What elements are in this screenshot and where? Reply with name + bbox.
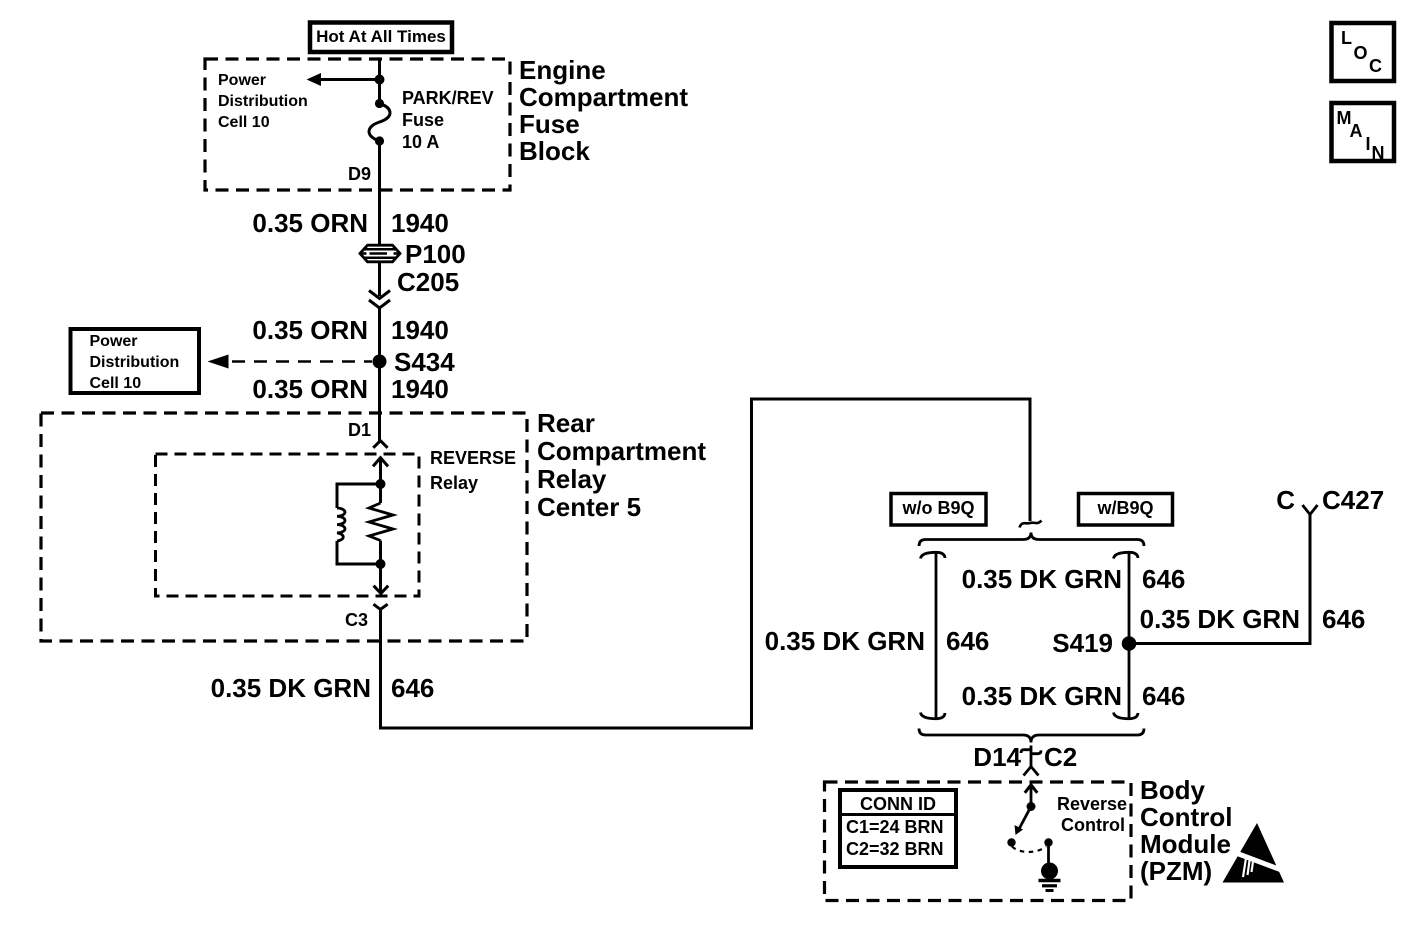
relay resistor branch wire bottom xyxy=(379,541,382,565)
splice label S419 xyxy=(1052,630,1113,657)
label C2=32 BRN xyxy=(846,840,944,859)
connector C427 chevron xyxy=(1303,505,1318,515)
node junction dot top xyxy=(375,75,385,85)
wire label 0.35 ORN 1940 (2) xyxy=(252,317,368,344)
relay top node dot xyxy=(376,479,386,489)
wire from C205 to splice S434 and on to D1 xyxy=(378,308,381,441)
bottom grouping brace xyxy=(919,729,1144,743)
wire to switch pivot xyxy=(1030,786,1033,807)
fuse PARK/REV bottom terminal dot xyxy=(375,136,384,145)
fuse PARK/REV top terminal dot xyxy=(375,99,384,108)
Body Control Module dashed box xyxy=(825,782,1132,901)
wire label 0.35 DK GRN 646 (w/o B9Q) xyxy=(765,628,925,655)
arrowhead to Power Distribution xyxy=(307,73,322,86)
wire label 0.35 DK GRN 646 (C3) xyxy=(211,675,371,702)
wire arrow to coil node xyxy=(379,458,382,484)
wire feed to Power Distribution xyxy=(320,78,380,81)
label Reverse Control xyxy=(1057,795,1127,814)
LOC letters xyxy=(1341,29,1352,48)
label Power Distribution Cell 10 (boxed) xyxy=(90,331,180,394)
label C1=24 BRN xyxy=(846,818,944,837)
dashed reference arrow to Power Distribution Cell 10 xyxy=(232,360,372,363)
MAIN legend box xyxy=(1332,103,1395,161)
wire from fuse through pin D9 to connector C205 xyxy=(378,141,381,246)
label Engine Compartment Fuse Block xyxy=(519,57,688,165)
Power Distribution Cell 10 box xyxy=(71,329,200,393)
pin label D14 xyxy=(973,744,1021,771)
ground symbol xyxy=(1041,863,1058,880)
w/B9Q option box xyxy=(1079,494,1173,526)
wire to ground xyxy=(1047,843,1050,864)
fuse PARK/REV element xyxy=(369,104,390,142)
pin C3 chevron xyxy=(373,604,387,609)
top grouping brace xyxy=(919,533,1144,547)
switch pivot dot xyxy=(1027,802,1036,811)
arrow out of REVERSE relay xyxy=(374,586,389,594)
MAIN letters xyxy=(1337,109,1352,128)
pin label C2 xyxy=(1044,744,1077,771)
splice label S434 xyxy=(394,349,455,376)
LOC legend box xyxy=(1332,23,1395,81)
relay resistor zigzag xyxy=(369,503,393,541)
switch left contact dot xyxy=(1007,838,1015,846)
connector P100 grommet xyxy=(360,245,400,262)
REVERSE Relay inner dashed box xyxy=(156,454,420,596)
splice S434 node dot xyxy=(373,355,387,369)
label REVERSE Relay xyxy=(430,449,516,468)
pin label C xyxy=(1276,487,1295,514)
label Body Control Module (PZM) xyxy=(1140,777,1232,885)
option label w/o B9Q xyxy=(891,499,986,518)
Hot At All Times box xyxy=(310,23,452,53)
label Power Distribution Cell 10 (fuse block) xyxy=(218,70,308,133)
label Hot At All Times xyxy=(310,27,452,46)
ESD sensitive symbol xyxy=(1223,823,1293,883)
pin chevron into BCM xyxy=(1024,767,1039,776)
wire label 0.35 DK GRN 646 (bottom branch) xyxy=(962,683,1122,710)
option label w/B9Q xyxy=(1079,499,1173,518)
connector C205 chevrons xyxy=(369,291,390,299)
relay resistor branch wire top xyxy=(379,484,382,503)
Rear Compartment Relay Center 5 dashed box xyxy=(41,413,527,641)
CONN ID header line xyxy=(840,813,956,816)
Engine Compartment Fuse Block dashed box xyxy=(205,59,510,190)
connector label C205 xyxy=(397,269,459,296)
relay coil branch wire xyxy=(337,484,381,564)
label CONN ID xyxy=(840,795,956,814)
switch lever xyxy=(1019,807,1031,830)
switch lever arrowhead xyxy=(1015,825,1024,835)
CONN ID table box xyxy=(840,790,956,867)
arrow into REVERSE relay xyxy=(373,458,388,467)
w/o B9Q option box xyxy=(891,494,986,526)
wire label 0.35 DK GRN 646 (to C427) xyxy=(1140,606,1300,633)
wire from C3 down, right, up and over to BCM branch xyxy=(381,399,1031,728)
w/B9Q wire with bracket ends xyxy=(1114,552,1139,718)
switch right contact dot xyxy=(1044,838,1052,846)
pin label D1 xyxy=(348,421,371,440)
w/o B9Q bracket xyxy=(921,552,946,718)
connector label P100 xyxy=(405,241,466,268)
relay bottom node dot xyxy=(376,559,386,569)
wire label 0.35 ORN 1940 (3) xyxy=(252,376,368,403)
splice S419 node dot xyxy=(1122,636,1137,651)
switch throw dashed arc xyxy=(1012,847,1046,852)
label Rear Compartment Relay Center 5 xyxy=(537,409,706,521)
connector label C427 xyxy=(1322,487,1384,514)
label PARK/REV Fuse 10 A xyxy=(402,87,494,153)
wire label 0.35 DK GRN 646 (top branch) xyxy=(962,566,1122,593)
pin D1 chevron xyxy=(373,441,387,448)
wire out of relay xyxy=(379,564,382,593)
connector D14/C2 symbol xyxy=(1021,746,1041,767)
wire from P100 to C205 xyxy=(378,262,381,296)
pin label C3 xyxy=(345,611,368,630)
wire label 0.35 ORN 1940 (1) xyxy=(252,210,368,237)
arrow into Reverse Control driver xyxy=(1025,785,1038,793)
wire from Hot At All Times into fuse block xyxy=(378,59,381,103)
wire from S419 to C427 xyxy=(1129,515,1310,644)
splice squiggle at branch top xyxy=(1020,521,1042,528)
pin label D9 xyxy=(348,165,371,184)
relay coil xyxy=(337,508,345,541)
